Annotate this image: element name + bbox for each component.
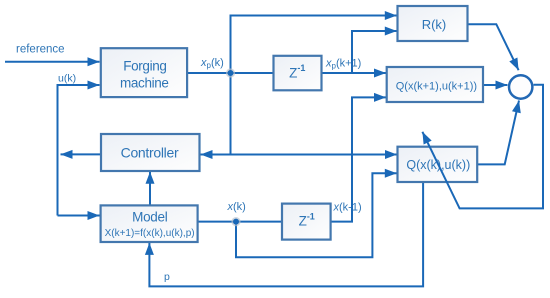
- wire: Model x(k) output to Z^-1 (bottom): [198, 221, 282, 223]
- wire: circle output feedback diagonal arrow through Q(x(k),u(k)): [422, 85, 543, 209]
- svg-text:Controller: Controller: [121, 145, 179, 161]
- wire: Z^-1 (bottom) x(k-1) output to Q(x(k+1),u(k+1)) input 2: [331, 97, 386, 221]
- wire: Controller output arrow to u(k) line: [61, 153, 102, 155]
- svg-text:reference: reference: [16, 43, 65, 55]
- box: Z^-1 (bottom): [282, 204, 331, 240]
- svg-text:u(k): u(k): [58, 73, 76, 85]
- wire: Q(x(k),u(k)) output into summing circle: [477, 101, 519, 165]
- wire: x(k) branch to Q(x(k),u(k)) input 2: [236, 173, 397, 257]
- wire: arrow left into Controller: [201, 154, 231, 156]
- wire: Q(x(k+1),u(k+1)) output into summing circle: [483, 84, 508, 86]
- box: R(k): [398, 6, 468, 41]
- box: Z^-1 (top): [274, 56, 322, 91]
- box: Forging machine: [101, 48, 187, 97]
- svg-text:Q(x(k+1),u(k+1)): Q(x(k+1),u(k+1)): [396, 80, 477, 92]
- wire: arrow right into Q(x(k),u(k)) input 1: [231, 154, 398, 156]
- svg-text:X(k+1)=f(x(k),u(k),p): X(k+1)=f(x(k),u(k),p): [105, 228, 195, 239]
- wire: p feedback from Q(x(k),u(k)) bottom into Model: [149, 182, 423, 286]
- node: x_p(k) junction dot: [226, 68, 235, 77]
- svg-text:x(k): x(k): [227, 201, 246, 213]
- wire: branch up to R(k) input 2: [352, 31, 397, 73]
- wire: u(k) vertical with branch into Forging machine: [58, 85, 100, 216]
- wire: Forging machine output to Z^-1 (top): [187, 72, 273, 74]
- box: Q(x(k+1),u(k+1)): [387, 67, 483, 102]
- wire: Model output up into Controller: [149, 172, 151, 206]
- box: Model: [101, 205, 198, 242]
- wire: x_p(k) junction up to R(k) input 1: [231, 16, 397, 74]
- node: x(k) junction dot: [231, 217, 240, 226]
- svg-text:xp(k): xp(k): [200, 57, 224, 70]
- svg-text:machine: machine: [120, 76, 169, 91]
- wire: Z^-1 (top) output to Q(x(k+1),u(k+1)) input 1: [322, 72, 386, 74]
- summing circle: [509, 75, 532, 98]
- box: Q(x(k),u(k)): [398, 147, 478, 182]
- svg-text:xp(k+1): xp(k+1): [325, 58, 361, 71]
- svg-text:R(k): R(k): [422, 17, 447, 32]
- wire: reference input arrow: [5, 61, 100, 63]
- svg-text:Model: Model: [132, 210, 168, 225]
- box: Controller: [101, 134, 200, 171]
- wire: x_p(k) junction down to controller line: [230, 73, 232, 155]
- svg-text:x(k-1): x(k-1): [333, 202, 362, 214]
- svg-text:Forging: Forging: [123, 59, 166, 74]
- wire: R(k) output into summing circle: [468, 24, 519, 70]
- svg-text:p: p: [164, 271, 170, 283]
- wire: u(k) branch into Model: [58, 215, 100, 217]
